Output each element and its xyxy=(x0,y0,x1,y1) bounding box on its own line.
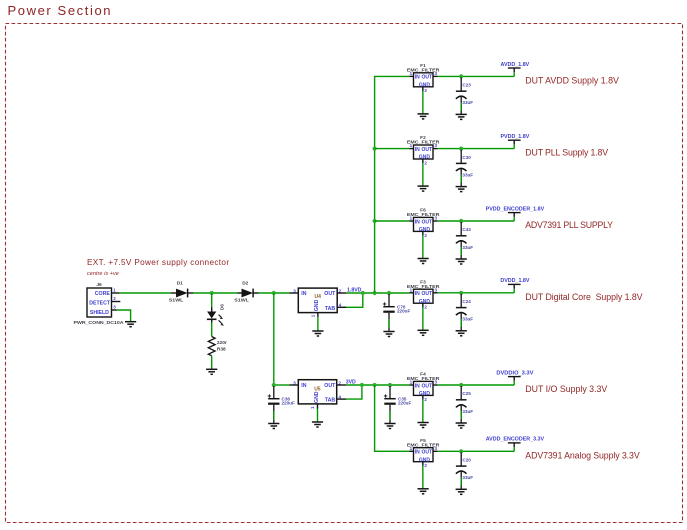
svg-text:IN: IN xyxy=(415,219,420,225)
wire 1.8V vertical bus xyxy=(375,76,410,293)
capacitor C24 33uF xyxy=(456,294,473,331)
svg-text:GND: GND xyxy=(314,299,320,311)
svg-text:S1WL: S1WL xyxy=(234,298,249,304)
diode D2 xyxy=(234,281,258,304)
node TAB join xyxy=(361,291,365,295)
svg-text:centre is +ve: centre is +ve xyxy=(87,271,119,277)
svg-text:OUT: OUT xyxy=(324,383,336,389)
svg-text:D2: D2 xyxy=(242,281,248,287)
wire CORE to D1 xyxy=(120,292,171,294)
svg-text:3VD: 3VD xyxy=(346,379,356,385)
wire input feed down to U5 xyxy=(273,293,275,385)
capacitor C36 220uF xyxy=(268,386,295,424)
net label PVDD_1.8V xyxy=(500,134,529,149)
svg-text:S1WL: S1WL xyxy=(169,298,184,304)
svg-text:33uF: 33uF xyxy=(462,172,473,177)
net label PVDD_ENCODER_1.8V xyxy=(486,206,545,221)
node C25 tap xyxy=(459,383,463,387)
svg-text:1.8VD: 1.8VD xyxy=(347,287,362,293)
svg-text:C20: C20 xyxy=(462,458,471,463)
ground xyxy=(268,424,279,429)
node C30 tap xyxy=(459,147,463,151)
svg-text:PVDD_ENCODER_1.8V: PVDD_ENCODER_1.8V xyxy=(486,206,545,212)
svg-text:ADV7391 Analog Supply 3.3V: ADV7391 Analog Supply 3.3V xyxy=(525,450,640,460)
ground xyxy=(456,114,467,119)
node bus to F6 xyxy=(373,219,377,223)
node 1.8V bus tap xyxy=(373,291,377,295)
wire R38 to ground xyxy=(211,356,213,370)
wire down to LED D6 xyxy=(211,293,213,308)
node TAB join U5 xyxy=(360,383,364,387)
ground xyxy=(456,187,467,192)
ground xyxy=(456,423,467,428)
svg-text:OUT: OUT xyxy=(422,291,433,297)
ground xyxy=(456,259,467,264)
svg-text:PVDD_1.8V: PVDD_1.8V xyxy=(500,134,529,140)
svg-text:ADV7391 PLL SUPPLY: ADV7391 PLL SUPPLY xyxy=(525,220,613,230)
wire D2 to U4 IN xyxy=(259,292,290,294)
ground xyxy=(456,489,467,494)
regulator U4 xyxy=(290,288,347,317)
EMC filter F5 xyxy=(407,438,440,489)
svg-text:33uF: 33uF xyxy=(462,317,473,322)
ground xyxy=(312,422,323,427)
EMC filter F1 xyxy=(407,63,440,114)
capacitor C70 220uF xyxy=(383,294,411,332)
svg-text:220uF: 220uF xyxy=(398,400,411,405)
node input split xyxy=(272,291,276,295)
svg-text:DUT Digital Core Supply 1.8V: DUT Digital Core Supply 1.8V xyxy=(525,292,642,302)
svg-text:33uF: 33uF xyxy=(462,245,473,250)
net label DVDD_1.8V xyxy=(500,278,530,293)
svg-text:DETECT: DETECT xyxy=(89,301,111,307)
wire F4 output xyxy=(438,384,515,386)
svg-text:R38: R38 xyxy=(217,346,226,352)
ground xyxy=(456,331,467,336)
wire F2 output xyxy=(438,148,515,150)
wire D1 to D2 xyxy=(193,292,238,294)
svg-text:C23: C23 xyxy=(462,83,471,88)
node C70 tap xyxy=(387,291,391,295)
wire U5 OUT 3VD rail xyxy=(346,384,409,386)
wire U4 OUT 1.8VD rail xyxy=(346,292,409,294)
svg-text:C24: C24 xyxy=(462,299,471,304)
wire F5 output xyxy=(438,450,515,452)
svg-text:IN: IN xyxy=(415,147,420,153)
node C43 tap xyxy=(459,219,463,223)
svg-text:D6: D6 xyxy=(219,304,225,310)
ground xyxy=(312,331,323,336)
node C35 tap xyxy=(388,383,392,387)
svg-text:AVDD_1.8V: AVDD_1.8V xyxy=(501,62,530,68)
svg-text:PWR_CONN_DC10A: PWR_CONN_DC10A xyxy=(74,320,124,326)
svg-text:IN: IN xyxy=(301,291,306,297)
resistor R38 xyxy=(208,337,227,356)
capacitor C30 33uF xyxy=(456,150,473,187)
EMC filter F4 xyxy=(407,372,440,423)
svg-text:TAB: TAB xyxy=(325,398,336,404)
diode D1 xyxy=(169,281,193,304)
svg-text:D1: D1 xyxy=(177,281,183,287)
svg-text:AVDD_ENCODER_3.3V: AVDD_ENCODER_3.3V xyxy=(486,437,545,443)
svg-text:OUT: OUT xyxy=(422,147,433,153)
EMC filter F3 xyxy=(407,279,440,330)
capacitor C23 33uF xyxy=(456,77,473,114)
svg-text:OUT: OUT xyxy=(324,291,336,297)
ground xyxy=(418,114,429,119)
svg-text:C25: C25 xyxy=(462,391,471,396)
svg-text:IN: IN xyxy=(415,291,420,297)
capacitor C35 220uF xyxy=(384,386,412,424)
svg-text:OUT: OUT xyxy=(422,450,433,456)
wire SHIELD to ground xyxy=(117,310,131,322)
svg-text:TAB: TAB xyxy=(325,306,336,312)
ground xyxy=(418,186,429,191)
ground xyxy=(383,332,394,337)
capacitor C25 33uF xyxy=(456,386,473,423)
svg-text:OUT: OUT xyxy=(422,219,433,225)
wire bus to F6 xyxy=(375,220,410,222)
svg-text:DVDD_1.8V: DVDD_1.8V xyxy=(500,278,530,284)
svg-text:DUT PLL Supply 1.8V: DUT PLL Supply 1.8V xyxy=(525,148,608,158)
svg-text:DVDDIO_3.3V: DVDDIO_3.3V xyxy=(496,370,533,376)
svg-text:C43: C43 xyxy=(462,227,471,232)
wire LED to R38 xyxy=(211,319,213,323)
svg-text:OUT: OUT xyxy=(422,75,433,81)
svg-text:220r: 220r xyxy=(217,340,227,346)
wire U5 GND to ground xyxy=(317,409,319,423)
ground xyxy=(418,259,429,264)
node C20 tap xyxy=(459,449,463,453)
node C23 tap xyxy=(459,74,463,78)
wire U4 TAB loop xyxy=(346,293,362,307)
EMC filter F2 xyxy=(407,135,440,186)
wire F1 output xyxy=(438,75,515,77)
node C36 tap xyxy=(272,383,276,387)
svg-text:SHIELD: SHIELD xyxy=(90,310,109,316)
ground xyxy=(384,424,395,429)
capacitor C43 33uF xyxy=(456,222,473,259)
svg-text:IN: IN xyxy=(415,75,420,81)
node 3.3V bus tap xyxy=(373,383,377,387)
connector J6 PWR_CONN_DC10A xyxy=(74,282,124,326)
svg-text:Power Section: Power Section xyxy=(8,3,113,18)
svg-text:J6: J6 xyxy=(96,282,102,288)
node LED tap xyxy=(210,291,214,295)
wire U4 GND to ground xyxy=(317,317,319,331)
ground xyxy=(125,322,136,327)
svg-text:U4: U4 xyxy=(314,294,321,300)
svg-text:33uF: 33uF xyxy=(462,475,473,480)
ground xyxy=(418,423,429,428)
svg-text:GND: GND xyxy=(314,391,320,403)
wire bus to F2 xyxy=(375,148,410,150)
svg-text:CORE: CORE xyxy=(95,291,111,297)
wire U5 TAB loop xyxy=(346,385,362,399)
EMC filter F6 xyxy=(407,208,440,259)
capacitor C20 33uF xyxy=(456,452,473,489)
svg-text:IN: IN xyxy=(415,450,420,456)
svg-text:DUT AVDD Supply 1.8V: DUT AVDD Supply 1.8V xyxy=(525,75,619,85)
ground xyxy=(206,369,217,374)
node C24 tap xyxy=(459,291,463,295)
svg-text:OUT: OUT xyxy=(422,383,433,389)
svg-text:DUT I/O Supply 3.3V: DUT I/O Supply 3.3V xyxy=(525,384,607,394)
svg-text:33uF: 33uF xyxy=(462,100,473,105)
ground xyxy=(418,330,429,335)
net label AVDD_1.8V xyxy=(501,62,530,77)
wire U5 IN xyxy=(274,384,290,386)
svg-text:IN: IN xyxy=(301,383,306,389)
svg-text:220uF: 220uF xyxy=(282,400,295,405)
svg-text:220uF: 220uF xyxy=(397,308,410,313)
wire 3.3V bus down to F5 xyxy=(375,385,410,451)
node bus to F2 xyxy=(373,147,377,151)
wire F6 output xyxy=(438,220,515,222)
net label DVDDIO_3.3V xyxy=(496,370,533,385)
svg-text:IN: IN xyxy=(415,383,420,389)
net label AVDD_ENCODER_3.3V xyxy=(486,437,545,452)
regulator U5 xyxy=(290,380,347,409)
svg-text:EXT. +7.5V Power supply connec: EXT. +7.5V Power supply connector xyxy=(87,258,229,267)
svg-text:33uF: 33uF xyxy=(462,409,473,414)
ground xyxy=(418,489,429,494)
svg-text:C30: C30 xyxy=(462,155,471,160)
LED D6 xyxy=(207,304,225,326)
wire F3 output xyxy=(438,292,515,294)
